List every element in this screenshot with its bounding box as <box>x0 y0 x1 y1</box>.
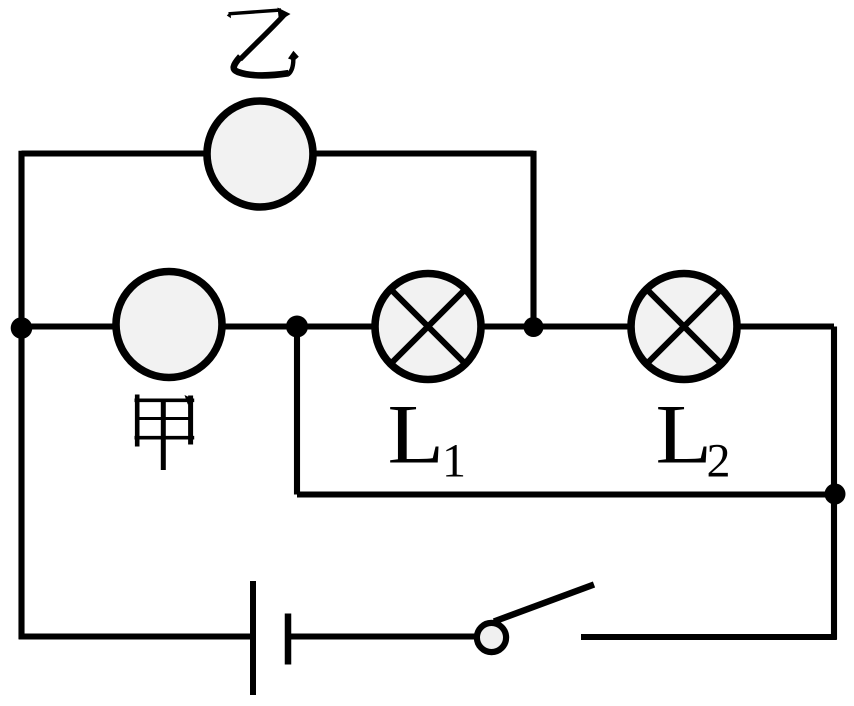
svg-text:L: L <box>388 388 445 482</box>
svg-text:1: 1 <box>442 435 466 488</box>
svg-text:2: 2 <box>707 435 731 488</box>
svg-text:L: L <box>656 388 713 482</box>
